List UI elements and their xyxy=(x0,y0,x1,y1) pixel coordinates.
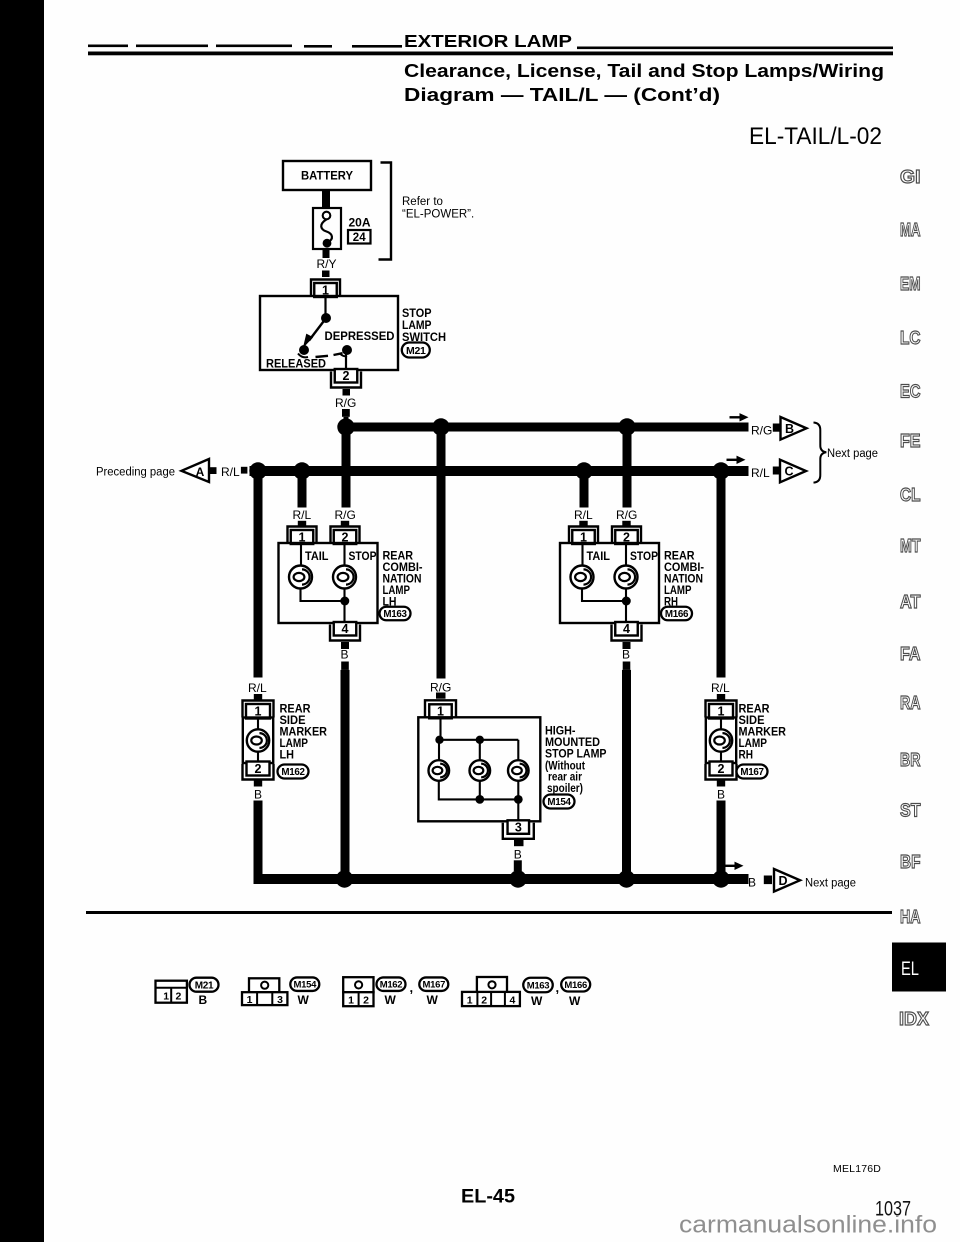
svg-text:1: 1 xyxy=(348,995,354,1007)
svg-text:MT: MT xyxy=(900,535,921,556)
svg-text:Clearance, License, Tail and S: Clearance, License, Tail and Stop Lamps/… xyxy=(404,61,884,81)
wire R/G drop to high-mounted stop lamp (crosses R/L bus) xyxy=(437,431,446,679)
header main rule xyxy=(88,52,893,56)
legend M163 color W xyxy=(531,994,543,1008)
label Next page (top) xyxy=(827,448,878,460)
svg-text:2: 2 xyxy=(363,995,369,1007)
diagram id EL-TAIL/L-02 xyxy=(749,123,882,150)
wire label B below LH combination lamp xyxy=(341,648,349,662)
HMSL bottom rail junction node 1 xyxy=(475,795,484,804)
svg-text:1: 1 xyxy=(467,995,473,1007)
legend connector id M21 xyxy=(190,978,219,992)
label REAR COMBINATION LAMP LH xyxy=(383,548,423,608)
svg-text:STOP: STOP xyxy=(630,549,658,563)
svg-text:MEL176D: MEL176D xyxy=(833,1163,881,1175)
off-page connector D xyxy=(774,869,800,892)
HMSL wire to pin 3 xyxy=(517,799,519,822)
connector id M166 xyxy=(661,607,692,621)
connector id M21 xyxy=(402,343,430,358)
wire stub square above switch pin 1 xyxy=(322,271,330,278)
sidebar tab EM xyxy=(900,273,921,294)
label STOP LH xyxy=(349,549,377,563)
svg-text:3: 3 xyxy=(515,820,522,834)
LH rear combination lamp box xyxy=(279,543,378,623)
svg-text:W: W xyxy=(298,993,310,1007)
stop lamp switch pin 2 xyxy=(331,369,361,388)
LH rear combination lamp pin 1 xyxy=(288,527,317,545)
sidebar tab CL xyxy=(900,484,921,505)
switch RELEASED contact xyxy=(298,345,309,357)
wire pin1 to bulb RH marker xyxy=(720,718,722,763)
wire label R/G above high-mounted stop lamp xyxy=(430,681,451,695)
legend comma 2 xyxy=(556,980,560,995)
junction node B at HMSL column xyxy=(509,870,526,887)
LH rear side marker pin 1 xyxy=(243,701,274,719)
HMSL bottom rail xyxy=(439,781,519,800)
wire label R/L above RH side marker xyxy=(711,681,730,695)
label REAR SIDE MARKER LAMP RH xyxy=(739,702,787,762)
sidebar tab EL (current section, black box) xyxy=(892,943,946,992)
junction node B at LH combination column xyxy=(336,870,353,887)
legend connector id M167 xyxy=(419,977,448,991)
wire R/L drop to RH side marker xyxy=(717,471,726,678)
svg-text:B: B xyxy=(717,788,725,802)
svg-text:M166: M166 xyxy=(665,609,689,620)
svg-text:1: 1 xyxy=(163,991,169,1003)
svg-text:ST: ST xyxy=(900,800,921,821)
svg-text:R/Y: R/Y xyxy=(317,257,337,271)
sidebar tab GI xyxy=(900,166,921,187)
R/G bus wire xyxy=(342,423,749,432)
wire label R/Y xyxy=(317,257,337,271)
label TAIL RH xyxy=(587,549,611,563)
wire R/L drop to RH combination pin 1 xyxy=(580,471,589,508)
svg-text:BATTERY: BATTERY xyxy=(301,169,353,183)
high-mounted stop lamp pin 3 xyxy=(503,820,534,839)
svg-text:M154: M154 xyxy=(547,797,571,808)
svg-text:Preceding page: Preceding page xyxy=(96,467,175,479)
legend M21 color B xyxy=(199,993,208,1007)
sidebar tab HA xyxy=(900,906,921,927)
label REAR COMBINATION LAMP RH xyxy=(664,548,704,608)
junction node bulbs RH xyxy=(622,597,631,606)
junction node B at RH combination column xyxy=(618,870,635,887)
wire battery to fuse xyxy=(322,189,330,209)
wire stub below pin 4 LH xyxy=(341,642,349,649)
svg-text:2: 2 xyxy=(255,762,262,776)
square above LH combination pin 1 xyxy=(298,521,306,528)
junction node R/L at LH side marker column xyxy=(249,462,266,479)
LH rear combination lamp pin 2 xyxy=(331,527,360,545)
svg-text:CL: CL xyxy=(900,484,921,505)
junction node R/G at switch column xyxy=(337,418,354,435)
HMSL wire pin1 down xyxy=(439,718,441,740)
svg-text:,: , xyxy=(556,980,560,995)
svg-text:M21: M21 xyxy=(406,345,426,357)
HMSL bulb 1 xyxy=(429,760,450,781)
svg-text:R/G: R/G xyxy=(616,508,637,522)
wire label B below RH combination lamp xyxy=(622,648,630,662)
svg-text:B: B xyxy=(199,993,208,1007)
legend connector M21 face xyxy=(156,981,187,1003)
svg-text:B: B xyxy=(748,876,756,890)
svg-text:“EL-POWER”.: “EL-POWER”. xyxy=(402,209,474,221)
svg-text:B: B xyxy=(622,648,630,662)
label RELEASED xyxy=(266,357,326,371)
switch internal wire to pin 2 xyxy=(345,354,347,370)
sidebar tab ST xyxy=(900,800,921,821)
label HIGH-MOUNTED STOP LAMP xyxy=(545,723,607,795)
svg-text:M167: M167 xyxy=(423,980,446,991)
svg-text:LC: LC xyxy=(900,327,921,348)
off-page connector B xyxy=(781,417,807,440)
legend connector M162/M167 face xyxy=(343,977,373,1006)
sidebar tab BF xyxy=(900,851,921,872)
square above RH side marker pin 1 xyxy=(717,694,725,700)
wire pin2 to stop bulb RH xyxy=(625,544,627,566)
RH rear side marker lamp box xyxy=(706,718,736,764)
legend connector id M154 xyxy=(290,977,319,991)
high-mounted stop lamp pin 1 xyxy=(425,700,456,718)
next page brace xyxy=(814,423,827,483)
junction node R/L at RH combination lamp column xyxy=(575,462,592,479)
sidebar tab LC xyxy=(900,327,921,348)
svg-text:RELEASED: RELEASED xyxy=(266,357,326,371)
RH rear combination lamp pin 1 xyxy=(569,527,598,545)
svg-text:R/L: R/L xyxy=(711,681,730,695)
wire label R/L above LH combination pin 1 xyxy=(293,508,312,522)
tail bulb RH xyxy=(571,566,594,589)
svg-text:FE: FE xyxy=(900,430,921,451)
arrow on B bus to next page xyxy=(725,862,744,870)
fuse number label 24 xyxy=(348,230,371,244)
wire R/G drop to LH combination pin 2 (crosses R/L bus) xyxy=(342,431,351,508)
svg-text:Diagram — TAIL/L — (Cont’d): Diagram — TAIL/L — (Cont’d) xyxy=(404,85,720,105)
legend M167 color W xyxy=(427,993,439,1007)
wire stub below RH marker pin 2 xyxy=(717,780,725,787)
wire fuse to R/Y xyxy=(323,249,330,258)
svg-text:R/L: R/L xyxy=(248,681,267,695)
wire label B below RH marker xyxy=(717,788,725,802)
bottom separator rule xyxy=(86,911,892,914)
svg-text:HA: HA xyxy=(900,906,921,927)
svg-text:R/G: R/G xyxy=(430,681,451,695)
R/L bus wire xyxy=(250,466,749,476)
HMSL bulb 2 xyxy=(470,760,491,781)
connector id M154 xyxy=(544,795,575,809)
svg-text:2: 2 xyxy=(718,762,725,776)
RH rear combination lamp box xyxy=(560,543,659,623)
RH rear side marker pin 1 xyxy=(706,701,737,719)
sidebar tab RA xyxy=(900,692,921,713)
svg-text:GI: GI xyxy=(900,166,921,187)
sidebar tab AT xyxy=(900,591,921,612)
label TAIL LH xyxy=(305,549,329,563)
svg-text:R/L: R/L xyxy=(293,508,312,522)
sidebar tab FE xyxy=(900,430,921,451)
sidebar tab EC xyxy=(900,381,921,402)
off-page connector C xyxy=(780,460,806,483)
HMSL top rail junction node 1 xyxy=(435,736,443,744)
RH rear combination lamp pin 2 xyxy=(612,527,641,545)
svg-text:3: 3 xyxy=(277,994,283,1006)
svg-text:Refer to: Refer to xyxy=(402,196,443,208)
svg-text:W: W xyxy=(385,993,397,1007)
svg-text:2: 2 xyxy=(343,369,350,383)
stop lamp switch S1 box xyxy=(260,296,398,370)
wire stub below switch pin 2 xyxy=(343,389,351,396)
header thin broken rule xyxy=(88,45,893,50)
svg-text:M162: M162 xyxy=(281,767,305,778)
svg-text:EXTERIOR LAMP: EXTERIOR LAMP xyxy=(404,31,572,51)
svg-text:4: 4 xyxy=(342,622,349,636)
note Refer to EL-POWER xyxy=(402,196,474,221)
svg-text:M154: M154 xyxy=(294,980,318,991)
legend comma 1 xyxy=(410,980,414,995)
arrow on R/G bus to next page xyxy=(730,413,749,421)
svg-text:carmanualsonline.info: carmanualsonline.info xyxy=(679,1212,937,1239)
connector id M163 xyxy=(380,607,411,621)
arrow on R/L bus to next page xyxy=(727,456,746,464)
wire R/G drop to RH combination pin 2 xyxy=(623,431,632,508)
fuse F 20A xyxy=(313,208,341,249)
svg-text:LH: LH xyxy=(280,748,295,762)
wire label R/G at bus end xyxy=(751,424,772,438)
svg-text:R/G: R/G xyxy=(335,396,356,410)
svg-text:RA: RA xyxy=(900,692,921,713)
HMSL bottom rail junction node 2 xyxy=(514,795,523,804)
page title line 2 xyxy=(404,85,720,105)
HMSL bulb 2 feed xyxy=(479,740,481,761)
book page number 1037 xyxy=(875,1198,911,1221)
svg-text:R/L: R/L xyxy=(751,466,770,480)
svg-text:W: W xyxy=(531,994,543,1008)
legend connector id M163 xyxy=(523,978,553,993)
RH rear side marker pin 2 xyxy=(706,762,737,780)
wire label R/L at bus end xyxy=(751,466,770,480)
svg-text:Next page: Next page xyxy=(827,448,878,460)
tail bulb LH xyxy=(289,566,312,589)
square below HMSL B label xyxy=(514,860,522,871)
connector id M162 xyxy=(278,765,309,779)
wire R/L drop to LH combination pin 1 xyxy=(298,471,307,508)
svg-text:M167: M167 xyxy=(740,767,764,778)
legend M154 color W xyxy=(298,993,310,1007)
header section title EXTERIOR LAMP xyxy=(404,31,572,51)
svg-text:W: W xyxy=(427,993,439,1007)
switch arm arrow xyxy=(303,320,325,349)
svg-text:spoiler): spoiler) xyxy=(547,781,583,795)
high-mounted stop lamp box xyxy=(418,717,540,821)
svg-text:EM: EM xyxy=(900,273,921,294)
wire stub below pin 4 RH xyxy=(623,642,631,649)
wire stop bulb to pin 4 LH xyxy=(343,589,345,625)
wire square R/G to bus xyxy=(342,409,350,422)
wire B LH marker to ground bus xyxy=(254,801,263,879)
page title line 1 xyxy=(404,61,884,81)
label REAR SIDE MARKER LAMP LH xyxy=(280,702,328,762)
square before connector B xyxy=(773,424,780,432)
B ground bus wire xyxy=(254,874,749,884)
square below B label LH xyxy=(341,662,349,670)
svg-text:B: B xyxy=(341,648,349,662)
LH rear side marker lamp box xyxy=(243,718,273,764)
svg-text:IDX: IDX xyxy=(899,1008,930,1029)
wire label B below LH marker xyxy=(254,788,262,802)
junction node R/G at RH combination lamp column xyxy=(618,418,635,435)
wire stub below HMSL pin 3 xyxy=(514,839,524,846)
HMSL bulb 3 xyxy=(508,760,529,781)
svg-text:R/G: R/G xyxy=(751,424,772,438)
square after connector A xyxy=(210,467,217,474)
wire label R/G above LH combination pin 2 xyxy=(335,508,356,522)
svg-text:M166: M166 xyxy=(564,980,587,991)
square before connector D xyxy=(764,876,772,885)
svg-text:EL: EL xyxy=(901,959,919,980)
scanned page left black edge xyxy=(0,0,44,1242)
wire B LH combination to ground bus xyxy=(341,670,350,875)
figure code MEL176D xyxy=(833,1163,881,1175)
square above RH combination pin 2 xyxy=(622,521,630,528)
wire label R/G below switch xyxy=(335,396,356,410)
svg-text:4: 4 xyxy=(509,995,515,1007)
svg-text:W: W xyxy=(569,994,581,1008)
sidebar tab MA xyxy=(900,219,921,240)
square above LH combination pin 2 xyxy=(341,521,349,528)
wire pin1 to bulb LH marker xyxy=(257,718,259,763)
svg-text:C: C xyxy=(784,465,793,479)
svg-text:M162: M162 xyxy=(380,980,403,991)
square above high-mounted stop lamp pin 1 xyxy=(436,693,446,699)
legend connector M163/M166 face xyxy=(462,977,520,1007)
legend connector M154 face xyxy=(242,978,287,1006)
svg-text:M163: M163 xyxy=(383,609,407,620)
svg-text:M21: M21 xyxy=(195,980,214,991)
wire tail bulb to junction LH xyxy=(301,589,345,602)
svg-text:BR: BR xyxy=(900,749,921,770)
page number EL-45 xyxy=(461,1187,515,1208)
switch internal wire from pin 1 xyxy=(324,297,326,315)
legend M166 color W xyxy=(569,994,581,1008)
wire label B below HMSL xyxy=(514,847,522,861)
wire B RH combination to ground bus xyxy=(622,670,631,875)
switch common contact xyxy=(321,313,331,323)
svg-text:2: 2 xyxy=(175,991,181,1003)
square before R/L bus xyxy=(241,467,248,474)
stop bulb LH xyxy=(333,566,356,589)
svg-text:M163: M163 xyxy=(527,980,550,991)
side marker bulb RH xyxy=(710,729,732,751)
sidebar tab IDX xyxy=(899,1008,930,1029)
junction node R/L at LH combination lamp column xyxy=(293,462,310,479)
svg-text:EL-TAIL/L-02: EL-TAIL/L-02 xyxy=(749,123,882,150)
svg-text:Next page: Next page xyxy=(805,878,856,890)
refer-to bracket xyxy=(379,163,392,260)
svg-text:2: 2 xyxy=(481,995,487,1007)
junction node B at RH side marker column xyxy=(712,870,729,887)
wire R/L drop to LH side marker xyxy=(254,471,263,678)
fuse rating label 20A xyxy=(349,216,371,230)
svg-text:B: B xyxy=(514,847,522,861)
side marker bulb LH xyxy=(247,729,269,751)
svg-text:B: B xyxy=(785,422,794,436)
HMSL top rail xyxy=(439,740,518,761)
svg-text:R/L: R/L xyxy=(221,465,240,479)
square above LH side marker pin 1 xyxy=(254,694,262,700)
junction node R/G at high-mounted stop lamp column xyxy=(432,418,449,435)
svg-text:B: B xyxy=(254,788,262,802)
switch throw dashes xyxy=(316,353,343,357)
battery B1 xyxy=(283,161,371,190)
LH rear combination lamp pin 4 xyxy=(330,622,360,641)
svg-text:EL-45: EL-45 xyxy=(461,1187,515,1208)
legend connector id M166 xyxy=(561,978,590,992)
LH rear side marker pin 2 xyxy=(243,762,274,780)
svg-text:AT: AT xyxy=(900,591,921,612)
label Next page (bottom) xyxy=(805,878,856,890)
HMSL bulb 1 feed xyxy=(438,740,440,761)
label STOP LAMP SWITCH xyxy=(402,306,446,344)
switch DEPRESSED contact xyxy=(340,345,352,356)
svg-text:STOP: STOP xyxy=(349,549,377,563)
svg-text:R/L: R/L xyxy=(574,508,593,522)
svg-text:A: A xyxy=(196,465,205,479)
wire pin1 to tail bulb RH xyxy=(581,544,583,566)
svg-text:20A: 20A xyxy=(349,216,371,230)
sidebar tab MT xyxy=(900,535,921,556)
square before connector C xyxy=(773,467,780,475)
svg-text:TAIL: TAIL xyxy=(587,549,611,563)
svg-text:TAIL: TAIL xyxy=(305,549,329,563)
wire label B at bus end xyxy=(748,876,756,890)
label DEPRESSED xyxy=(325,329,395,343)
svg-text:D: D xyxy=(778,874,787,888)
square below B label RH xyxy=(623,662,631,670)
wire stop bulb to pin 4 RH xyxy=(625,589,627,625)
HMSL top rail junction node 2 xyxy=(476,736,484,744)
wire label R/G above RH combination pin 2 xyxy=(616,508,637,522)
off-page connector A from preceding page xyxy=(96,459,209,482)
legend M162 color W xyxy=(385,993,397,1007)
square above RH combination pin 1 xyxy=(579,521,587,528)
wire tail bulb to junction RH xyxy=(582,589,626,602)
svg-text:DEPRESSED: DEPRESSED xyxy=(325,329,395,343)
svg-text:EC: EC xyxy=(900,381,921,402)
legend connector id M162 xyxy=(377,977,406,991)
wire pin2 to stop bulb LH xyxy=(343,544,345,566)
svg-text:BF: BF xyxy=(900,851,921,872)
sidebar tab BR xyxy=(900,749,921,770)
watermark carmanualsonline.info xyxy=(679,1212,937,1239)
wire label R/L above LH side marker xyxy=(248,681,267,695)
wire label R/L above RH combination pin 1 xyxy=(574,508,593,522)
RH rear combination lamp pin 4 xyxy=(612,622,642,641)
svg-text:1: 1 xyxy=(247,994,253,1006)
svg-text:4: 4 xyxy=(623,622,630,636)
stop bulb RH xyxy=(615,566,638,589)
stop lamp switch pin 1 xyxy=(311,280,340,298)
svg-text:R/G: R/G xyxy=(335,508,356,522)
sidebar tab FA xyxy=(900,643,921,664)
junction node R/L at RH side marker column xyxy=(712,462,729,479)
wire pin1 to tail bulb LH xyxy=(300,544,302,566)
svg-text:MA: MA xyxy=(900,219,921,240)
svg-text:FA: FA xyxy=(900,643,921,664)
svg-text:RH: RH xyxy=(739,748,754,762)
wire B RH marker to ground bus xyxy=(717,801,726,879)
junction node bulbs LH xyxy=(340,597,349,606)
svg-text:24: 24 xyxy=(353,232,366,244)
